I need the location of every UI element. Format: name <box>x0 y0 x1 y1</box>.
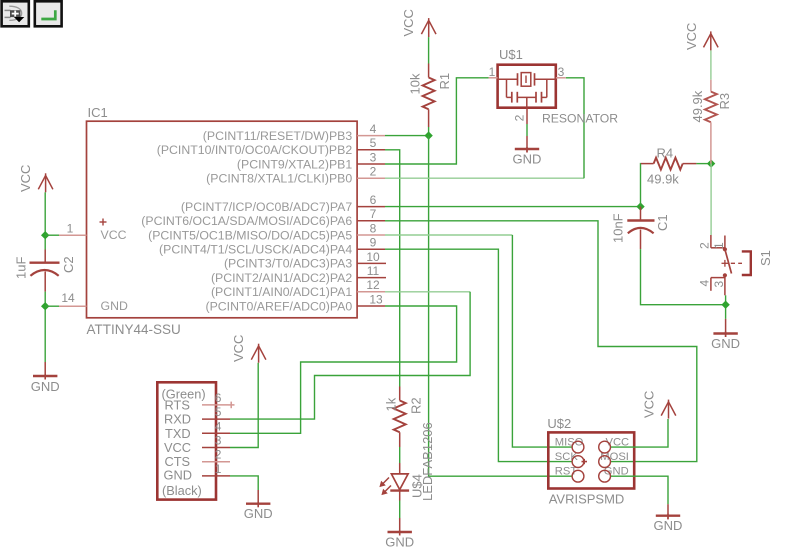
svg-text:3: 3 <box>215 434 222 448</box>
svg-text:3: 3 <box>712 281 726 288</box>
IC U1 ATTINY44 box <box>87 105 358 337</box>
resonator U$1 <box>489 47 619 126</box>
wire LED to GND <box>399 501 401 519</box>
node RESET junction <box>424 131 432 139</box>
wire C2 to GND <box>44 292 46 362</box>
VCC symbol above R3 <box>684 23 718 51</box>
svg-text:3: 3 <box>370 150 377 164</box>
svg-text:4: 4 <box>215 419 222 433</box>
IC pin 12 stub <box>357 278 385 292</box>
svg-text:2: 2 <box>513 114 527 121</box>
svg-text:13: 13 <box>369 292 383 306</box>
svg-text:6: 6 <box>370 193 377 207</box>
VCC symbol above R1 <box>401 9 436 37</box>
pin pad SCK <box>572 456 584 468</box>
FTDI pin 4 TXD <box>202 419 230 433</box>
toolbar button: add part <box>2 1 29 26</box>
svg-text:GND: GND <box>31 379 60 394</box>
svg-text:GND: GND <box>711 336 740 351</box>
IC pin 10 stub <box>357 250 386 264</box>
IC pin 3 stub <box>357 150 385 164</box>
pin pad MISO <box>572 441 584 453</box>
wire pin9 to SCK <box>385 249 572 461</box>
wire pin3 to resonator pin1 <box>385 78 489 164</box>
svg-text:IC1: IC1 <box>88 105 108 120</box>
switch S1 <box>697 235 773 295</box>
svg-text:10: 10 <box>366 250 380 264</box>
svg-text:7: 7 <box>370 207 377 221</box>
svg-text:6: 6 <box>215 391 222 405</box>
svg-text:VCC: VCC <box>684 23 699 50</box>
IC left pin texts <box>100 219 128 314</box>
svg-text:(PCINT6/OC1A/SDA/MOSI/ADC6)PA6: (PCINT6/OC1A/SDA/MOSI/ADC6)PA6 <box>141 214 352 228</box>
ground left <box>31 362 60 394</box>
svg-text:VCC: VCC <box>401 9 416 36</box>
wire R1 to pin4 junction <box>428 127 430 136</box>
wire pin4 to junction <box>385 135 429 137</box>
wire FTDI VCC up <box>230 363 258 448</box>
svg-text:1: 1 <box>489 65 496 79</box>
svg-text:GND: GND <box>654 518 683 533</box>
svg-text:11: 11 <box>367 264 380 278</box>
pin pad GND <box>599 470 611 482</box>
FTDI pin 6 RTS <box>202 391 235 408</box>
svg-text:AVRISPSMD: AVRISPSMD <box>549 492 625 507</box>
svg-text:(PCINT2/AIN1/ADC2)PA2: (PCINT2/AIN1/ADC2)PA2 <box>211 271 352 285</box>
svg-text:10nF: 10nF <box>610 213 625 243</box>
wire R2 to LED <box>399 447 401 463</box>
svg-text:GND: GND <box>101 299 128 313</box>
resistor R3 49.9k <box>690 80 732 164</box>
svg-text:1: 1 <box>67 222 74 236</box>
svg-text:(Black): (Black) <box>162 483 202 498</box>
svg-text:VCC: VCC <box>231 335 246 362</box>
IC pin 4 stub <box>357 122 385 136</box>
IC pin 1 stub <box>59 222 87 236</box>
IC pin 9 stub <box>357 236 385 250</box>
svg-text:(PCINT1/AIN0/ADC1)PA1: (PCINT1/AIN0/ADC1)PA1 <box>211 285 352 299</box>
svg-text:S1: S1 <box>758 250 773 266</box>
node C1 junction <box>636 202 644 210</box>
svg-text:8: 8 <box>370 221 377 235</box>
wire U$2 VCC up <box>611 419 668 447</box>
ground FTDI <box>244 490 273 521</box>
svg-text:4: 4 <box>697 280 711 287</box>
svg-text:TXD: TXD <box>165 426 191 441</box>
VCC symbol U$2 <box>642 391 676 419</box>
IC pin 11 stub <box>357 264 386 278</box>
svg-text:VCC: VCC <box>642 391 657 418</box>
FTDI header <box>157 382 216 499</box>
wire RESET vertical to RST <box>429 136 572 477</box>
junction marker SCK <box>582 459 588 464</box>
svg-text:(PCINT11/RESET/DW)PB3: (PCINT11/RESET/DW)PB3 <box>203 129 353 143</box>
resistor R1 10k <box>408 64 452 128</box>
wire pin8 to MISO <box>385 234 512 236</box>
svg-text:(PCINT3/T0/ADC3)PA3: (PCINT3/T0/ADC3)PA3 <box>224 257 352 271</box>
wire U$2 GND down <box>611 476 668 504</box>
svg-text:1uF: 1uF <box>14 257 29 279</box>
svg-text:(PCINT7/ICP/OC0B/ADC7)PA7: (PCINT7/ICP/OC0B/ADC7)PA7 <box>181 200 352 214</box>
IC pin 7 stub <box>357 207 385 221</box>
FTDI pin 5 RXD <box>202 405 230 419</box>
ground resonator <box>513 136 542 167</box>
svg-text:R1: R1 <box>437 73 452 90</box>
wire pin7 to MOSI <box>385 221 697 462</box>
wire junction down to S1 <box>710 164 712 235</box>
svg-text:RXD: RXD <box>164 412 191 427</box>
wire pin5 to R2 <box>385 150 400 387</box>
svg-text:R4: R4 <box>657 146 674 161</box>
resistor R2 1k <box>384 387 424 448</box>
svg-text:10k: 10k <box>408 73 423 94</box>
pin pad MOSI <box>599 456 611 468</box>
resistor R4 49.9k <box>641 146 697 187</box>
svg-text:(PCINT8/XTAL1/CLKI)PB0: (PCINT8/XTAL1/CLKI)PB0 <box>206 172 352 186</box>
svg-text:R2: R2 <box>409 397 424 414</box>
wire VCC to pin1 junction <box>44 192 46 249</box>
svg-text:(PCINT9/XTAL2)PB1: (PCINT9/XTAL2)PB1 <box>237 157 352 171</box>
svg-text:(PCINT0/AREF/ADC0)PA0: (PCINT0/AREF/ADC0)PA0 <box>206 299 353 313</box>
wire VCC to R1 <box>428 37 430 63</box>
node S1 GND junction <box>721 301 729 309</box>
svg-text:(PCINT5/OC1B/MISO/DO/ADC5)PA5: (PCINT5/OC1B/MISO/DO/ADC5)PA5 <box>148 228 352 242</box>
svg-text:RTS: RTS <box>165 397 190 412</box>
svg-text:14: 14 <box>61 291 75 305</box>
FTDI pin 1 GND <box>202 462 230 476</box>
IC pin 8 stub <box>357 221 385 235</box>
IC pin 6 stub <box>357 193 385 207</box>
svg-text:RESONATOR: RESONATOR <box>542 112 618 126</box>
wire resonator pin2 to GND <box>526 124 528 136</box>
svg-text:GND: GND <box>164 467 192 482</box>
svg-text:R3: R3 <box>717 93 732 110</box>
ground S1 <box>711 319 740 351</box>
wire pin12 to RXD <box>385 291 470 293</box>
IC pin 13 stub <box>357 292 385 306</box>
FTDI pin 2 CTS <box>202 448 230 462</box>
svg-text:ATTINY44-SSU: ATTINY44-SSU <box>87 322 181 337</box>
svg-text:9: 9 <box>370 236 377 250</box>
IC right pin labels <box>141 129 352 313</box>
node R3/R4 junction <box>707 159 715 167</box>
svg-text:VCC: VCC <box>164 440 191 455</box>
svg-text:(PCINT4/T1/SCL/USCK/ADC4)PA4: (PCINT4/T1/SCL/USCK/ADC4)PA4 <box>159 243 352 257</box>
capacitor C2 <box>14 250 76 292</box>
svg-text:LEDFAB1206: LEDFAB1206 <box>420 422 435 501</box>
svg-text:2: 2 <box>697 242 711 249</box>
IC pin 14 stub <box>59 291 87 306</box>
svg-text:1: 1 <box>215 462 222 476</box>
wire pin2 to resonator pin3 <box>385 177 584 179</box>
wire C1 to GND rail <box>641 249 726 305</box>
svg-text:49.9k: 49.9k <box>647 172 679 187</box>
svg-text:1k: 1k <box>384 397 399 411</box>
svg-text:GND: GND <box>244 506 273 521</box>
AVRISP header U$2 <box>547 416 634 507</box>
svg-text:5: 5 <box>370 136 377 150</box>
wire FTDI GND down <box>230 476 258 490</box>
node pin1 junction <box>41 231 59 239</box>
pin pad RST <box>572 470 584 482</box>
wire pin13 to TXD <box>230 306 457 433</box>
svg-text:C2: C2 <box>61 256 76 273</box>
svg-text:3: 3 <box>558 65 565 79</box>
svg-text:VCC: VCC <box>101 228 127 242</box>
VCC symbol FTDI <box>231 335 266 363</box>
wire pin6 to C1 junction <box>385 206 641 208</box>
svg-text:VCC: VCC <box>18 165 33 192</box>
svg-text:GND: GND <box>385 535 414 550</box>
svg-text:2: 2 <box>215 448 222 462</box>
wire S1 to GND junction <box>725 295 727 319</box>
svg-text:U$2: U$2 <box>547 416 571 431</box>
pin pad VCC <box>599 441 611 453</box>
svg-text:(PCINT10/INT0/OC0A/CKOUT)PB2: (PCINT10/INT0/OC0A/CKOUT)PB2 <box>157 143 353 157</box>
VCC symbol left <box>18 165 53 193</box>
svg-text:4: 4 <box>370 122 377 136</box>
svg-text:U$1: U$1 <box>499 47 523 62</box>
svg-text:2: 2 <box>370 165 377 179</box>
svg-text:C1: C1 <box>655 214 670 231</box>
wire R4 to R3 rail <box>696 163 711 165</box>
svg-text:GND: GND <box>513 152 542 167</box>
LED U$4 LEDFAB1206 <box>379 422 434 501</box>
wire junction up to R4 <box>640 164 642 207</box>
capacitor C1 10nF <box>610 207 670 250</box>
ground LED <box>385 518 414 550</box>
node pin14 junction <box>41 302 59 310</box>
svg-text:MISO: MISO <box>555 436 584 448</box>
FTDI pin 3 VCC <box>202 434 230 448</box>
IC pin 5 stub <box>357 136 385 150</box>
IC pin 2 stub <box>357 165 385 179</box>
svg-text:5: 5 <box>215 405 222 419</box>
toolbar button: wire bend <box>35 1 62 26</box>
ground U$2 <box>654 504 683 533</box>
svg-text:49.9k: 49.9k <box>690 90 705 122</box>
wire VCC to R3 <box>710 50 712 79</box>
svg-text:12: 12 <box>366 278 380 292</box>
